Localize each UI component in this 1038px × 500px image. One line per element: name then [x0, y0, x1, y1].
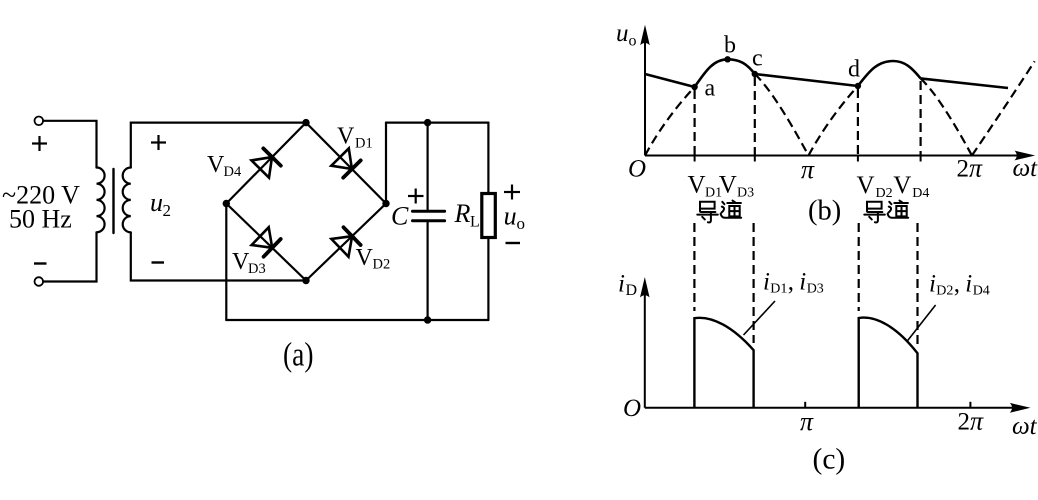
svg-text:2: 2 — [163, 201, 172, 220]
plot b point b dot — [724, 56, 730, 62]
terminal top-left — [35, 117, 44, 126]
bridge edge top-right — [306, 123, 386, 204]
plot b y-axis arrowhead — [640, 25, 650, 45]
wire bottom terminal to primary — [43, 233, 96, 282]
label plus load — [504, 185, 520, 200]
terminal bottom-left — [35, 277, 44, 286]
plot b point d dot — [855, 83, 861, 89]
svg-text:u: u — [150, 188, 163, 217]
diode VD4 — [252, 148, 281, 177]
svg-text:V: V — [356, 245, 374, 271]
svg-text:D2: D2 — [936, 283, 953, 298]
diode VD3 — [252, 227, 281, 256]
svg-text:D3: D3 — [807, 281, 824, 296]
bridge edge left-top — [226, 123, 306, 204]
top dc rail — [386, 121, 488, 123]
svg-text:i: i — [618, 271, 625, 298]
svg-text:(c): (c) — [813, 444, 846, 476]
plot b dashed sine rise pi to d — [809, 86, 858, 156]
plot b tick a — [694, 156, 696, 162]
plot c pointer line 1 — [744, 301, 776, 335]
link dashed vertical 1 — [693, 223, 695, 311]
svg-text:D1: D1 — [770, 281, 787, 296]
svg-text:2π: 2π — [958, 407, 985, 436]
label plus capacitor — [408, 189, 424, 204]
link dashed vertical 3 — [858, 223, 860, 311]
plot b solid decay c to d — [755, 74, 858, 86]
plot b y-axis — [644, 42, 646, 156]
plot b label daotong 1 — [697, 201, 741, 223]
plot b dashed vertical at c — [754, 77, 756, 156]
label plus primary — [32, 136, 47, 151]
svg-text:,: , — [954, 271, 960, 298]
svg-text:D3: D3 — [248, 261, 266, 277]
plot b solid conduction hump a-b-c — [695, 59, 755, 87]
capacitor C plates — [413, 210, 445, 213]
junction node bridge bottom — [302, 277, 309, 284]
plot b label daotong 2 — [864, 201, 908, 223]
svg-text:u: u — [616, 20, 629, 47]
plot b dashed sine fall c to pi — [755, 74, 809, 156]
plot b tick d — [857, 156, 859, 162]
svg-text:2π: 2π — [957, 154, 984, 183]
link dashed vertical 4 — [916, 223, 918, 346]
plot c y-axis — [644, 294, 646, 408]
plot b solid decay e to end — [921, 78, 1008, 88]
capacitor C wires — [427, 123, 429, 210]
wire top terminal to primary — [43, 121, 96, 168]
link dashed vertical 2 — [752, 223, 754, 343]
svg-text:i: i — [799, 269, 806, 296]
svg-text:(b): (b) — [808, 196, 841, 227]
dashed link lines between plot b and plot c — [694, 223, 917, 346]
bottom dc rail — [226, 319, 488, 321]
plot c x-axis arrowhead — [1010, 403, 1031, 413]
svg-text:(a): (a) — [283, 337, 314, 374]
svg-text:,: , — [788, 269, 794, 296]
bridge edge bottom-right — [306, 204, 386, 281]
label minus secondary — [152, 261, 165, 263]
label minus primary — [34, 262, 47, 264]
svg-text:D1: D1 — [355, 136, 373, 152]
plot b solid decay start to a — [645, 74, 695, 87]
svg-text:ωt: ωt — [1012, 413, 1038, 440]
plot b tick c — [754, 156, 756, 162]
svg-text:50 Hz: 50 Hz — [9, 205, 72, 234]
label minus load — [506, 242, 521, 244]
plot b dashed sine fall e to 2pi — [921, 78, 972, 155]
svg-text:a: a — [705, 76, 716, 102]
svg-text:O: O — [628, 156, 646, 183]
svg-text:D: D — [626, 282, 638, 299]
plot b point c dot — [752, 71, 758, 77]
diode VD2 — [331, 227, 360, 256]
svg-text:o: o — [629, 33, 637, 50]
svg-text:D4: D4 — [912, 186, 929, 201]
plot b dashed sine rise after 2pi — [972, 61, 1035, 155]
svg-text:D2: D2 — [876, 186, 893, 201]
plot b dashed vertical at d — [857, 89, 859, 156]
svg-text:d: d — [848, 57, 860, 83]
wire secondary top to bridge top rail — [131, 123, 306, 168]
svg-text:π: π — [801, 155, 815, 184]
plot c x-axis — [645, 407, 1025, 409]
wire secondary bottom to bridge bottom node — [131, 233, 306, 281]
svg-text:V: V — [857, 172, 875, 199]
svg-text:C: C — [391, 202, 409, 231]
svg-text:V: V — [337, 123, 355, 149]
load resistor RL body — [482, 194, 496, 238]
svg-text:i: i — [929, 271, 936, 298]
svg-text:ωt: ωt — [1013, 155, 1038, 182]
plot c pulse 1 — [694, 318, 753, 408]
svg-text:c: c — [752, 46, 763, 72]
junction node bridge top — [302, 119, 309, 126]
svg-text:O: O — [623, 395, 641, 422]
svg-text:V: V — [207, 152, 225, 178]
svg-text:D4: D4 — [973, 283, 990, 298]
plot b point a dot — [691, 84, 697, 90]
load resistor RL wires — [487, 123, 489, 194]
plot c pulse 2 — [859, 318, 918, 408]
junction node bridge right — [382, 200, 389, 207]
plot b tick e — [920, 156, 922, 162]
plot c y-axis arrowhead — [640, 277, 650, 298]
svg-text:u: u — [504, 202, 517, 231]
svg-text:o: o — [517, 214, 526, 233]
svg-text:π: π — [800, 407, 814, 436]
transformer secondary winding — [123, 168, 131, 233]
wire bridge left node down to bottom dc rail — [225, 204, 227, 321]
plot b dashed vertical at e — [919, 81, 921, 156]
svg-text:R: R — [454, 199, 471, 228]
junction node bridge left — [223, 200, 230, 207]
transformer core — [112, 169, 114, 233]
svg-text:V: V — [719, 172, 737, 199]
plot c tick pi — [804, 402, 806, 408]
svg-text:D4: D4 — [224, 164, 242, 180]
svg-text:V: V — [893, 172, 911, 199]
svg-text:i: i — [965, 271, 972, 298]
plot b dashed sine rise O to a — [645, 87, 695, 156]
svg-text:D2: D2 — [373, 257, 391, 273]
svg-text:b: b — [724, 33, 736, 59]
bridge edge left-bottom — [226, 204, 306, 281]
svg-text:V: V — [688, 172, 706, 199]
svg-text:L: L — [470, 214, 480, 231]
plot c pointer line 2 — [907, 305, 936, 341]
junction node capacitor bottom — [424, 316, 431, 323]
diode VD1 — [331, 148, 360, 177]
plot c tick 2pi — [969, 402, 971, 408]
label plus secondary — [151, 135, 166, 150]
plot b solid conduction hump d-e — [858, 61, 921, 86]
plot b x-axis arrowhead — [1015, 151, 1036, 161]
svg-text:D3: D3 — [737, 186, 754, 201]
plot b dashed vertical at a — [693, 90, 695, 156]
transformer primary winding — [97, 168, 105, 233]
svg-text:i: i — [763, 269, 770, 296]
junction node capacitor top — [424, 119, 431, 126]
wire bridge right node up to top dc rail — [385, 123, 387, 204]
plot b x-axis — [645, 155, 1030, 157]
